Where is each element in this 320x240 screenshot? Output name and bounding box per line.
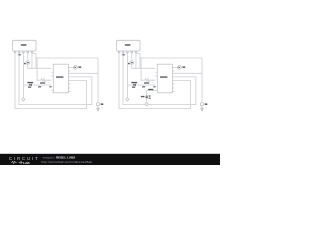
svg-text:esegato / REBEL LAB8: esegato / REBEL LAB8 <box>43 155 76 159</box>
svg-text:http://circuitlab.com/c/latexl: http://circuitlab.com/c/latexle45qb <box>41 160 92 164</box>
svg-text:LAB: LAB <box>23 161 30 165</box>
